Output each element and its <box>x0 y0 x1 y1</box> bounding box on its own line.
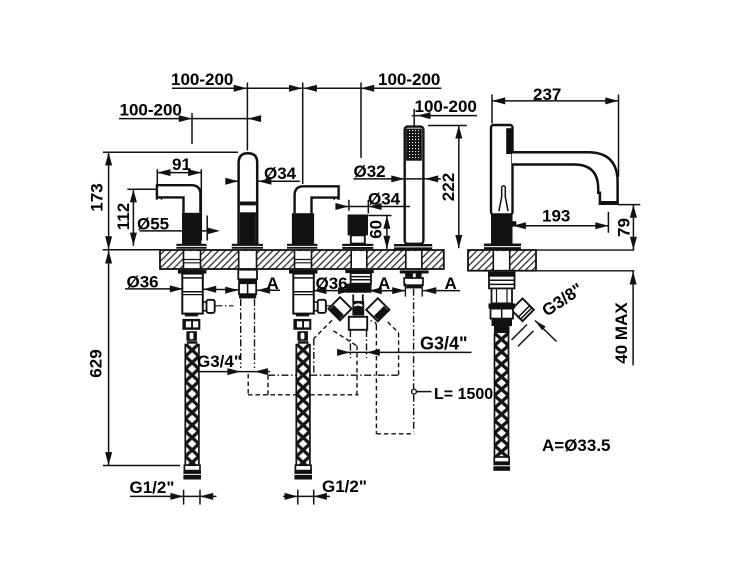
capsule 2 black lower body <box>240 212 256 244</box>
deck hole channel 4 <box>351 250 367 269</box>
hand shower centerline upper <box>413 289 415 389</box>
extension line handle right <box>200 169 202 240</box>
capsule 2 escutcheon flange <box>232 244 263 249</box>
hidden hose centerlines below capsule 2 <box>241 299 255 368</box>
svg-text:237: 237 <box>533 85 561 104</box>
valve 3 side outlet port <box>314 300 326 313</box>
dashed diagonal from left port down-right <box>333 331 356 346</box>
valve 3 locknut under deck <box>289 270 318 274</box>
hand shower centerline lower <box>413 395 415 432</box>
dimension O32 hand shower leader <box>354 175 441 182</box>
svg-text:60: 60 <box>367 220 386 239</box>
valve 3 escutcheon flange <box>287 244 317 249</box>
dashed drop from right port <box>398 333 400 375</box>
extension line center fixture 4 <box>360 83 362 159</box>
thread lines in deck hole 3 <box>295 260 312 263</box>
deck slab left (hatched countertop) <box>160 250 444 269</box>
deck hole channel 3 <box>295 250 312 269</box>
extension line center fixture 2 <box>246 83 248 151</box>
hand shower 5 body <box>405 127 424 244</box>
svg-text:Ø32: Ø32 <box>354 162 386 181</box>
dimension A hole diverter <box>338 287 392 294</box>
svg-text:Ø34: Ø34 <box>264 164 297 183</box>
handle lever 3 (outline, pointing right) <box>295 186 339 213</box>
flexible braided hose spout <box>495 333 509 457</box>
extension line spout right <box>618 95 620 178</box>
dashed diagonal from right port <box>388 322 399 333</box>
deck hole channel 2 <box>239 250 257 269</box>
svg-text:Ø34: Ø34 <box>368 189 401 208</box>
spout hose end fitting <box>493 457 510 471</box>
dashed hand-shower hose left riser <box>375 326 377 434</box>
valve 1 side outlet port <box>203 300 215 313</box>
dimension 100-200 row B line right <box>412 112 477 119</box>
spout fitting body below deck <box>492 288 513 303</box>
extension line center fixture 3 <box>302 83 304 185</box>
svg-text:629: 629 <box>87 349 106 377</box>
svg-text:193: 193 <box>542 206 570 225</box>
svg-text:79: 79 <box>615 218 634 237</box>
diverter 4 right angled port <box>366 298 389 321</box>
capsule 2 upper nut below deck <box>238 270 257 283</box>
svg-text:Ø36: Ø36 <box>127 272 159 291</box>
capsule 2 lower nut below deck <box>239 283 256 298</box>
spout escutcheon flange <box>484 244 521 250</box>
svg-text:A: A <box>445 274 457 293</box>
hose 3 end fitting G1/2 <box>294 465 312 479</box>
extension line center fixture 1 <box>191 113 193 144</box>
dimension O36 valve1 <box>125 285 238 293</box>
svg-text:100-200: 100-200 <box>171 70 233 89</box>
dimension 222 line <box>455 125 462 248</box>
svg-text:40 MAX: 40 MAX <box>612 302 631 364</box>
deck surface line extending right <box>536 249 634 251</box>
svg-text:100-200: 100-200 <box>378 70 440 89</box>
dashed diagonal from left port down-left <box>314 320 332 338</box>
svg-text:100-200: 100-200 <box>415 97 477 116</box>
svg-text:G3/4": G3/4" <box>420 334 468 354</box>
flexible braided hose 3 <box>296 344 310 465</box>
spout angled port G3/8 <box>511 298 534 321</box>
dashed hose drop below capsule <box>247 374 249 394</box>
dimension G3/8 leader <box>535 321 557 342</box>
extension line hose end left <box>103 465 180 467</box>
dashed routing horizontal upper <box>268 374 399 376</box>
diverter 4 valve barrel <box>352 295 364 316</box>
dimension G3/8 thread ticks <box>512 325 534 347</box>
svg-text:G1/2": G1/2" <box>322 477 367 496</box>
hose 1 end fitting G1/2 <box>183 465 201 479</box>
extension line knob top <box>368 215 391 217</box>
dimension 100-200 row A line <box>172 85 441 92</box>
valve 1 cartridge body (black) <box>182 213 201 245</box>
handle lever 1 (outline, pointing left) <box>157 185 201 213</box>
deck slab right (hatched, under spout) <box>468 250 536 271</box>
svg-text:A: A <box>378 274 390 293</box>
extension line spout left <box>491 95 493 124</box>
leader to L=1500 label <box>417 391 432 393</box>
valve 3 body below deck <box>293 274 314 314</box>
dimension A hole hand shower <box>390 287 460 294</box>
svg-text:91: 91 <box>172 155 191 174</box>
dimension 40 MAX line <box>630 271 637 365</box>
capsule trim 2 (rounded-top outline) <box>239 153 258 246</box>
dimension G1/2 hose1 <box>130 490 217 505</box>
valve 1 locknut under deck <box>178 270 207 274</box>
dimension O55 leader <box>140 216 221 241</box>
hand shower 5 holder flange <box>394 244 432 250</box>
svg-text:A=Ø33.5: A=Ø33.5 <box>542 436 611 455</box>
extension line handle underside <box>127 188 156 190</box>
svg-text:G1/2": G1/2" <box>130 478 175 497</box>
spout body column <box>491 125 513 215</box>
svg-text:A: A <box>267 274 279 293</box>
valve 1 escutcheon flange <box>176 244 206 249</box>
svg-text:222: 222 <box>439 173 458 201</box>
diverter knob 4 (black square) <box>348 215 368 236</box>
dimension 91 line <box>157 169 201 176</box>
dimension 79 line <box>630 205 637 250</box>
spout internal waterway (funnel) <box>499 186 508 211</box>
centerline stub from port 1 <box>216 305 234 307</box>
extension line handle left <box>156 169 158 187</box>
spout locknut below deck <box>488 272 516 289</box>
valve 1 body below deck <box>182 274 203 314</box>
deck underside line extending right <box>536 270 634 272</box>
diverter 4 escutcheon flange <box>342 244 373 249</box>
spout body black stripe <box>506 128 512 154</box>
dimension 112 line <box>130 189 137 246</box>
svg-text:Ø55: Ø55 <box>137 214 169 233</box>
flexible braided hose 1 <box>185 344 199 465</box>
dimension G3/4 capsule <box>198 368 270 375</box>
dimension 193 line <box>513 212 609 233</box>
dimension O36 valve3 <box>313 287 347 294</box>
centerline stub from port 3 <box>327 305 345 307</box>
dimension 237 line <box>492 97 619 104</box>
diverter 4 collar under deck <box>345 270 374 273</box>
extension line hand shower top <box>428 125 467 127</box>
dimension 100-200 row B line left <box>119 115 261 122</box>
capsule 2 black ring band <box>240 202 256 206</box>
valve 1 hose coupling nut <box>182 314 200 344</box>
dimension O34 capsule leader <box>225 178 299 185</box>
valve 3 hose coupling nut <box>293 314 311 344</box>
dashed drop at x268 <box>267 375 269 395</box>
hand shower 5 spray face (dotted) <box>407 129 422 160</box>
extension line top of capsule <box>103 151 238 153</box>
diverter 4 stem <box>351 235 365 243</box>
svg-text:G3/4": G3/4" <box>197 352 242 371</box>
G3/4 thread centerlines right port <box>350 330 366 358</box>
spout arm (inverted U) <box>512 152 618 204</box>
svg-text:112: 112 <box>114 203 133 230</box>
svg-text:100-200: 100-200 <box>120 100 182 119</box>
extension line deck top left <box>103 249 161 251</box>
dashed routing horizontal lower <box>248 394 359 396</box>
dimension 629 line <box>105 250 112 465</box>
extension line spout mouth level <box>618 204 641 206</box>
svg-text:L= 1500: L= 1500 <box>434 386 493 403</box>
diverter 4 black collar 2 <box>346 284 372 293</box>
hand shower 5 nut below deck <box>400 270 429 296</box>
dimension G1/2 hose3 <box>283 490 330 505</box>
deck hole channel 1 <box>184 250 201 269</box>
dimension A hole capsule <box>257 287 280 294</box>
spout hose coupling stack <box>489 303 516 333</box>
extension line center fixture 5 <box>413 109 415 126</box>
dashed corner to right port <box>371 321 377 326</box>
spout black base body <box>491 215 516 245</box>
svg-text:173: 173 <box>88 183 107 211</box>
thread lines in deck hole 1 <box>184 260 201 263</box>
dimension 173 line <box>105 152 112 249</box>
dash-dot drop at hose 3 edge <box>313 339 315 375</box>
valve 3 cartridge body (black) <box>292 213 314 244</box>
diverter 4 foot <box>349 317 367 330</box>
dashed hand-shower hose bottom <box>376 433 414 435</box>
dimension 60 line <box>383 216 390 249</box>
diverter 4 left angled port <box>328 297 351 320</box>
dimension O34 diverter leader <box>335 200 410 214</box>
deck hole channel 5 <box>406 250 422 269</box>
diverter 4 neck box <box>351 273 371 284</box>
dashed riser right of hose 3 <box>356 346 358 395</box>
deck hole channel 6 <box>493 250 509 271</box>
dimension G3/4 diverter <box>337 349 471 356</box>
hose length reference dot <box>412 389 417 394</box>
